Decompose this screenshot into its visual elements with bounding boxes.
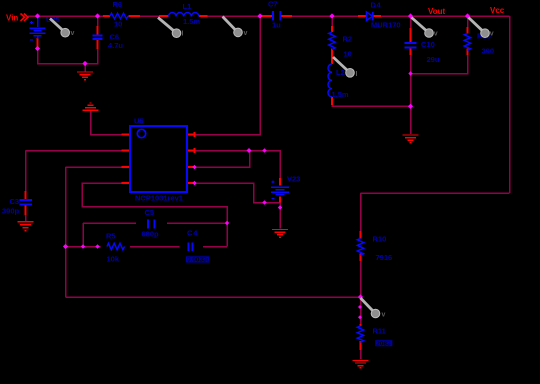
svg-text:10k: 10k <box>107 255 120 264</box>
wire bus R6-L1 segment <box>140 15 160 17</box>
resistor R15 <box>464 34 470 51</box>
resistor R11 <box>357 326 363 342</box>
wire V23 bottom to ground <box>279 203 281 229</box>
probe V Vcc <box>469 18 494 38</box>
svg-text:I: I <box>182 31 184 38</box>
wire R5 row left <box>66 246 101 248</box>
wire L2 bottom corner <box>332 105 411 106</box>
svg-text:R10: R10 <box>373 235 387 244</box>
node C7 bus <box>257 13 262 18</box>
wire FB node to R11 <box>360 297 362 324</box>
node R5 row left <box>63 244 68 249</box>
svg-text:R2: R2 <box>343 35 353 44</box>
svg-text:Vin: Vin <box>6 14 18 23</box>
pin stub C7 right <box>282 15 293 17</box>
svg-text:v: v <box>71 30 75 37</box>
svg-text:D4: D4 <box>371 1 382 10</box>
pin stub battery V1 bottom <box>37 38 39 48</box>
battery V23 <box>271 181 289 199</box>
ground R11 <box>353 361 369 368</box>
wire pin2 right <box>195 151 281 179</box>
svg-text:v: v <box>382 312 386 319</box>
svg-text:0.0033u: 0.0033u <box>187 257 211 264</box>
node C5 left column <box>81 244 85 248</box>
svg-text:C7: C7 <box>268 0 278 9</box>
node V23 ground stem <box>278 205 282 209</box>
wire gnd stem to pin1 <box>91 111 122 135</box>
pin stub C6 bottom <box>97 40 99 49</box>
wire right edge vertical <box>509 16 511 193</box>
wire pin2 left horizontal <box>26 150 122 152</box>
svg-text:v: v <box>244 30 248 37</box>
resistor R5 <box>107 243 125 249</box>
probe V Vout <box>412 18 438 38</box>
svg-text:R6: R6 <box>113 0 123 9</box>
node R5 left <box>95 244 99 248</box>
wire C3 gnd stem <box>25 215 27 221</box>
svg-text:680p: 680p <box>142 230 160 239</box>
probe I L1 <box>158 18 184 38</box>
wire feedback row <box>66 296 361 298</box>
svg-text:1.5m: 1.5m <box>183 17 200 26</box>
op-amp U5 body <box>130 126 187 192</box>
capacitor C10 <box>405 43 417 48</box>
node V23 bottom row <box>262 200 266 204</box>
svg-text:R11: R11 <box>373 326 386 335</box>
wire R15 top stem <box>467 16 469 27</box>
port symbol Vin <box>21 14 29 21</box>
pin stub R6 right <box>129 15 141 17</box>
node L2 C10 ground <box>408 104 413 109</box>
capacitor C5 <box>148 220 155 229</box>
wire bus C7-D4 segment <box>292 15 358 17</box>
svg-text:390p: 390p <box>2 207 20 216</box>
diode D4 <box>367 12 373 21</box>
probe V feedback <box>361 298 386 319</box>
value R11 2083 (selected) <box>375 340 392 347</box>
wire C4 right segment <box>203 246 227 248</box>
svg-text:Vcc: Vcc <box>490 6 505 15</box>
wire C10 top stem <box>410 16 412 28</box>
wire C10-R15 bottom row <box>411 55 468 74</box>
node feedback junction <box>358 294 363 299</box>
pin tick U5 right pin 7 end <box>194 148 196 153</box>
pin stub R2 top <box>331 26 333 32</box>
pin stub R10 top <box>360 231 362 239</box>
pin stub C3 bottom <box>25 206 27 216</box>
pin stub V23 top <box>279 178 281 186</box>
pin stub D4 right <box>374 15 382 17</box>
pin stub R15 bottom <box>467 49 469 56</box>
pin stub U5 left pin 3 <box>122 166 131 168</box>
pin stub C3 top <box>25 191 27 199</box>
pin stub C7 left <box>262 15 273 17</box>
svg-text:V23: V23 <box>287 174 300 183</box>
node R2 bus <box>329 13 334 18</box>
wire R2 top stem <box>331 16 333 26</box>
pin stub L2 bottom <box>331 97 333 106</box>
pin stub D4 left <box>358 15 367 17</box>
wire C10 bottom column <box>410 49 412 135</box>
capacitor C4 <box>189 243 193 252</box>
resistor R10 <box>357 239 363 256</box>
svg-text:10: 10 <box>344 50 352 59</box>
svg-text:L1: L1 <box>183 2 192 11</box>
pin stub U5 left pin 4 <box>122 182 131 184</box>
probe V battery input <box>50 19 75 38</box>
pin tick U5 right pin 8 end <box>194 132 196 137</box>
svg-text:29u: 29u <box>427 55 440 64</box>
svg-text:C4: C4 <box>187 229 198 238</box>
wire pin4 left <box>82 183 227 247</box>
pin stub L1 left <box>159 15 169 17</box>
wire bus Vin segment <box>28 15 103 17</box>
pin stub V23 bottom <box>279 197 281 203</box>
wire pin3 left horizontal <box>66 166 122 168</box>
wire C6 gnd stem <box>84 64 86 72</box>
resistor R2 <box>329 32 335 50</box>
pin stub C10 bottom <box>410 49 412 56</box>
svg-text:1u: 1u <box>272 21 281 30</box>
svg-text:1.5m: 1.5m <box>332 90 349 99</box>
ground U5 pin1 (flipped) <box>83 103 99 110</box>
pin stub U5 right pin 7 <box>187 150 195 152</box>
node C5 right <box>225 221 229 225</box>
svg-text:C3: C3 <box>10 197 20 206</box>
capacitor C6 <box>93 36 103 40</box>
pin stub R15 top <box>467 27 469 34</box>
wire C5 row left <box>83 222 136 224</box>
ground C3 <box>18 222 34 231</box>
node C6 bus <box>95 13 100 18</box>
pin stub R6 left <box>103 15 110 17</box>
probe I L2 <box>333 57 358 78</box>
pin stub U5 right pin 8 <box>187 134 195 136</box>
svg-text:4.7u: 4.7u <box>108 41 123 50</box>
value C4 0.0033u (selected) <box>186 256 211 263</box>
pin stub L1 right <box>199 15 208 17</box>
svg-text:v: v <box>490 31 494 38</box>
svg-text:R5: R5 <box>106 232 116 241</box>
wire Vcc horizontal to R10 <box>361 192 510 194</box>
inductor L2 <box>328 64 332 97</box>
wire pin3 right <box>195 151 250 168</box>
svg-text:2083: 2083 <box>376 340 391 347</box>
svg-text:C10: C10 <box>421 40 435 49</box>
pin stub U5 right pin 5 <box>187 182 195 184</box>
wire C6 top stem <box>97 16 99 27</box>
node U5 pin6 end <box>192 165 196 169</box>
wire C3 top column <box>25 151 27 192</box>
capacitor C3 <box>20 200 33 205</box>
pin stub U5 left pin 2 <box>122 150 131 152</box>
svg-text:7916: 7916 <box>376 253 393 262</box>
pin stub U5 right pin 6 <box>187 166 195 168</box>
pin stub U5 left pin 1 <box>122 134 131 136</box>
svg-text:390: 390 <box>482 47 495 56</box>
pin stub R11 bottom <box>360 341 362 350</box>
wire R10 top <box>360 193 362 231</box>
probe V L1 <box>223 17 248 37</box>
wire V23 top stem <box>279 151 281 179</box>
wire pin4 right <box>195 183 281 203</box>
svg-text:MUR170: MUR170 <box>371 21 401 30</box>
wire bus L1-C7 segment <box>208 15 262 17</box>
wire C5 row right <box>167 222 227 224</box>
wire R10 bottom to FB node <box>360 261 362 297</box>
resistor R6 <box>110 13 128 19</box>
wire bus D4-right segment <box>381 15 510 17</box>
node battery V1 bottom <box>35 46 40 51</box>
wire pin1 right to bus <box>195 16 261 135</box>
ground V23 <box>272 230 288 238</box>
node pin2 right b <box>262 148 266 152</box>
wire C5 left column <box>82 223 84 247</box>
wire R5-C4 segment <box>130 246 180 248</box>
node probe tap a <box>358 305 362 309</box>
node battery V1 top <box>35 13 40 18</box>
svg-text:L2: L2 <box>336 68 345 77</box>
svg-text:10: 10 <box>114 20 122 29</box>
ground C6 <box>77 72 93 80</box>
wire pin3 left column <box>65 167 67 297</box>
pin stub C6 top <box>97 26 99 35</box>
svg-text:v: v <box>434 30 438 37</box>
node Vcc R15 <box>465 13 470 18</box>
node C10 R15 bottom <box>408 71 412 75</box>
wire R11 bottom stem <box>360 350 362 359</box>
node U5 pin5 end <box>192 181 196 185</box>
svg-text:Vout: Vout <box>428 7 446 16</box>
node Vout <box>408 13 413 18</box>
svg-text:I: I <box>356 71 358 78</box>
pin stub R10 bottom <box>360 254 362 262</box>
node probe tap b <box>358 315 362 319</box>
pin stub R2 bottom <box>331 49 333 65</box>
ground C10 <box>403 135 419 143</box>
svg-text:U5: U5 <box>134 117 144 126</box>
pin stub R11 top <box>360 324 362 326</box>
pin stub C10 top <box>410 28 412 43</box>
svg-text:C5: C5 <box>145 208 155 217</box>
svg-text:NCP1031rev1: NCP1031rev1 <box>135 194 183 203</box>
battery V1 <box>30 17 46 41</box>
node pin2 right a <box>247 148 252 153</box>
inductor L1 <box>169 12 199 16</box>
capacitor C7 <box>273 11 281 21</box>
node C6 ground <box>82 61 87 66</box>
wire battery V1 bottom <box>38 49 98 64</box>
